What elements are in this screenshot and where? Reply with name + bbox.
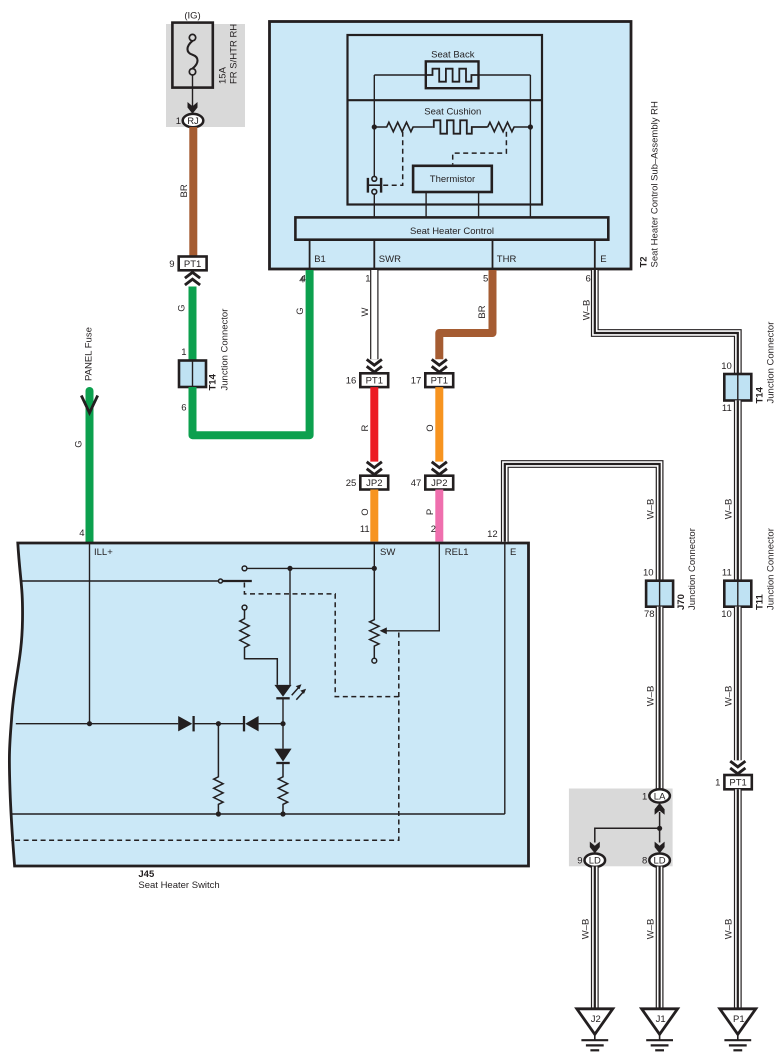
svg-text:PANEL Fuse: PANEL Fuse [84, 327, 95, 381]
svg-text:9: 9 [577, 856, 582, 867]
svg-text:T11: T11 [754, 593, 765, 610]
resistor R4 [214, 724, 223, 814]
wire W SWR pin 1 to PT1-16 [360, 270, 374, 359]
svg-text:Junction Connector: Junction Connector [687, 528, 698, 610]
arrow up into PT1-9 [185, 272, 200, 285]
connector PT1 pin 16 [346, 373, 388, 387]
resistor cushion left [374, 122, 433, 131]
splice wiring [595, 812, 662, 843]
connector LA pin 1 [642, 789, 670, 802]
svg-text:J45: J45 [138, 869, 155, 880]
svg-text:25: 25 [346, 478, 357, 489]
svg-text:ILL+: ILL+ [94, 547, 113, 558]
fuse F1 15A FR S/HTR RH [172, 23, 239, 88]
arrow into LD-8 [655, 842, 665, 854]
svg-text:9: 9 [169, 259, 174, 270]
svg-text:JP2: JP2 [366, 478, 382, 489]
wire W-B T11 to PT1-1 [724, 607, 738, 761]
fuse block shading [166, 24, 245, 127]
svg-text:11: 11 [722, 568, 732, 579]
svg-text:J1: J1 [656, 1014, 666, 1025]
svg-text:W–B: W–B [582, 300, 593, 321]
svg-text:5: 5 [483, 274, 488, 285]
arrow into PT1-1 [730, 761, 745, 774]
connector PT1 pin 9 [169, 257, 206, 271]
dashed link resistor to thermal switch [382, 132, 403, 186]
wire SW internal stub [373, 544, 375, 568]
svg-text:(IG): (IG) [184, 11, 200, 22]
wire E internal [504, 544, 506, 814]
thermistor box [413, 166, 492, 192]
arrow into PT1-16 [367, 359, 382, 372]
svg-text:Junction Connector: Junction Connector [766, 528, 777, 610]
svg-text:Seat Back: Seat Back [431, 49, 475, 60]
svg-text:SW: SW [380, 547, 395, 558]
svg-text:16: 16 [346, 376, 357, 387]
thermal switch [368, 176, 381, 194]
svg-text:12: 12 [487, 529, 498, 540]
svg-text:W–B: W–B [724, 686, 735, 707]
arrow into JP2-47 [432, 462, 447, 475]
svg-text:E: E [510, 547, 516, 558]
svg-text:W–B: W–B [581, 919, 592, 940]
svg-text:Thermistor: Thermistor [430, 174, 475, 185]
wire W-B J70 to LA [646, 607, 660, 790]
svg-text:1: 1 [176, 116, 181, 127]
svg-text:1: 1 [365, 274, 370, 285]
svg-text:8: 8 [642, 856, 647, 867]
ground P1 [720, 1009, 756, 1051]
svg-text:W–B: W–B [724, 499, 735, 520]
svg-text:1: 1 [715, 778, 720, 789]
seat heater control bar [295, 217, 608, 239]
svg-text:Seat Heater Control Sub–Assemb: Seat Heater Control Sub–Assembly RH [650, 101, 661, 267]
connector JP2 pin 25 [346, 476, 388, 490]
svg-text:JP2: JP2 [431, 478, 447, 489]
svg-text:PT1: PT1 [431, 376, 448, 387]
splice block shading [569, 789, 673, 867]
node bus R4 [216, 811, 221, 816]
wire W-B PT1-1 to ground P1 [724, 789, 738, 1009]
wire right vertical to control [529, 75, 531, 217]
junction connector J70 pins 10/78 [643, 528, 698, 620]
svg-text:Seat Heater Control: Seat Heater Control [410, 226, 494, 237]
svg-text:W: W [360, 307, 371, 316]
svg-text:78: 78 [644, 609, 655, 620]
wire seat back right [479, 74, 531, 76]
svg-text:RJ: RJ [187, 116, 199, 127]
svg-text:W–B: W–B [646, 919, 657, 940]
svg-text:PT1: PT1 [729, 778, 746, 789]
ECU T2 Seat Heater Control Sub-Assembly RH box [270, 22, 632, 270]
svg-text:J2: J2 [591, 1014, 601, 1025]
wire W-B E pin 12 to J70 [505, 464, 660, 581]
node ILL junction [87, 721, 92, 726]
arrow into LD-9 [590, 842, 600, 854]
svg-text:Junction Connector: Junction Connector [766, 322, 777, 404]
internal rail to SW [242, 566, 377, 571]
wire BR THR pin 5 to PT1-17 [439, 270, 492, 359]
svg-text:G: G [295, 307, 306, 314]
dashed link resistor to thermistor [453, 132, 507, 165]
wire switched ILL to LED [289, 568, 291, 685]
wire G T14 to B1 pin 4 [193, 270, 310, 435]
connector JP2 pin 47 [411, 476, 453, 490]
wire G PANEL fuse to ILL+ [86, 391, 94, 542]
svg-text:PT1: PT1 [184, 259, 201, 270]
arrow up into LA [655, 803, 665, 815]
wire seat back left [374, 74, 426, 76]
svg-text:BR: BR [477, 305, 488, 318]
heater element seat back [426, 61, 479, 88]
svg-text:O: O [360, 508, 371, 515]
wire O JP2-25 to SW pin 11 [370, 490, 378, 542]
svg-text:THR: THR [497, 254, 517, 265]
connector PT1 pin 1 [715, 775, 752, 789]
LED D1 [274, 684, 306, 723]
wire ILL+ internal [89, 544, 91, 724]
svg-text:47: 47 [411, 478, 422, 489]
svg-text:1: 1 [642, 791, 647, 802]
svg-text:Seat Cushion: Seat Cushion [424, 107, 481, 118]
arrow into PT1-17 [432, 359, 447, 372]
junction connector T14 pins 10/11 [721, 322, 776, 414]
arrow from PANEL fuse [81, 396, 97, 413]
inner heater unit box [348, 35, 543, 205]
svg-text:10: 10 [721, 361, 732, 372]
wire W-B LD-8 to ground J1 [646, 867, 660, 1009]
switch lever S1 [22, 579, 252, 583]
svg-text:E: E [600, 254, 606, 265]
svg-text:O: O [425, 424, 436, 431]
diode D4 [274, 724, 291, 763]
svg-text:10: 10 [643, 568, 654, 579]
arrow into JP2-25 [367, 462, 382, 475]
svg-text:1: 1 [181, 347, 186, 358]
svg-text:P: P [425, 509, 436, 515]
svg-text:6: 6 [586, 274, 591, 285]
svg-text:G: G [74, 440, 85, 447]
svg-text:B1: B1 [314, 254, 326, 265]
connector PT1 pin 17 [411, 373, 453, 387]
svg-text:G: G [177, 304, 188, 311]
svg-text:T2: T2 [639, 256, 650, 267]
wire R PT1-16 to JP2-25 [370, 387, 378, 462]
connector RJ pin 1 [176, 114, 204, 127]
wire O PT1-17 to JP2-47 [435, 387, 443, 462]
svg-text:LD: LD [589, 856, 601, 867]
divider seat back / seat cushion [348, 99, 543, 101]
svg-text:LA: LA [654, 791, 666, 802]
svg-text:SWR: SWR [379, 254, 401, 265]
potentiometer VR1 [370, 571, 379, 663]
svg-text:R: R [360, 424, 371, 431]
svg-text:Seat Heater Switch: Seat Heater Switch [138, 880, 219, 891]
node bus R5 [280, 811, 285, 816]
svg-text:17: 17 [411, 376, 422, 387]
node cushion right [528, 124, 533, 129]
node R4 junction [216, 721, 221, 726]
connector LD pin 8 [642, 854, 670, 867]
svg-text:15A: 15A [218, 66, 229, 84]
mech dashed link switch to wiper [244, 583, 398, 697]
wire W-B E pin 6 to T14 [582, 270, 738, 374]
svg-text:4: 4 [299, 275, 304, 286]
wire W-B T14 to T11 [724, 400, 738, 580]
ground J1 [642, 1009, 678, 1051]
wire W-B LD-9 to ground J2 [581, 867, 595, 1009]
resistor cushion right [488, 122, 531, 131]
switch J45 Seat Heater Switch box [9, 543, 528, 866]
svg-text:T14: T14 [208, 373, 219, 390]
svg-text:W–B: W–B [646, 686, 657, 707]
svg-text:P1: P1 [733, 1014, 745, 1025]
ground J2 [577, 1009, 613, 1051]
diode D3 [244, 716, 259, 731]
svg-text:11: 11 [722, 403, 732, 414]
node cushion left [372, 124, 377, 129]
connector LD pin 9 [577, 854, 605, 867]
svg-text:2: 2 [431, 524, 436, 535]
svg-text:10: 10 [721, 609, 732, 620]
svg-text:LD: LD [654, 856, 666, 867]
resistor R3 with terminal [240, 605, 277, 685]
svg-text:4: 4 [79, 528, 84, 539]
wire BR fuse to PT1-9 [189, 127, 197, 257]
junction connector T11 pins 11/10 [721, 528, 776, 620]
resistor R5 [278, 763, 287, 814]
svg-text:6: 6 [181, 403, 186, 414]
wire fuse to RJ [192, 75, 194, 107]
terminal dividers [310, 240, 595, 269]
wire left vertical B1 to control [373, 75, 375, 176]
svg-text:PT1: PT1 [366, 376, 383, 387]
svg-text:FR S/HTR RH: FR S/HTR RH [229, 24, 240, 84]
svg-text:Junction Connector: Junction Connector [220, 309, 231, 391]
wiper from REL1 [380, 544, 440, 634]
svg-text:11: 11 [360, 524, 370, 535]
svg-text:BR: BR [179, 184, 190, 197]
heater element seat cushion [433, 120, 488, 133]
sections appended below [166, 11, 245, 286]
wire P JP2-47 to REL1 pin 2 [435, 490, 443, 542]
svg-text:W–B: W–B [646, 499, 657, 520]
wire G PT1-9 to T14 [189, 287, 197, 361]
svg-text:W–B: W–B [724, 919, 735, 940]
arrow into RJ [188, 102, 198, 114]
diode D2 [178, 716, 193, 731]
svg-text:T14: T14 [754, 386, 765, 403]
ground bus in J45 [12, 813, 505, 815]
diode bus line [16, 723, 283, 725]
junction connector T14 pins 1/6 [179, 309, 231, 414]
svg-text:J70: J70 [676, 594, 687, 610]
thermistor legs [426, 192, 479, 217]
mech dashed wiper down to base [11, 633, 399, 841]
node D4 junction [280, 721, 285, 726]
svg-text:REL1: REL1 [445, 547, 469, 558]
